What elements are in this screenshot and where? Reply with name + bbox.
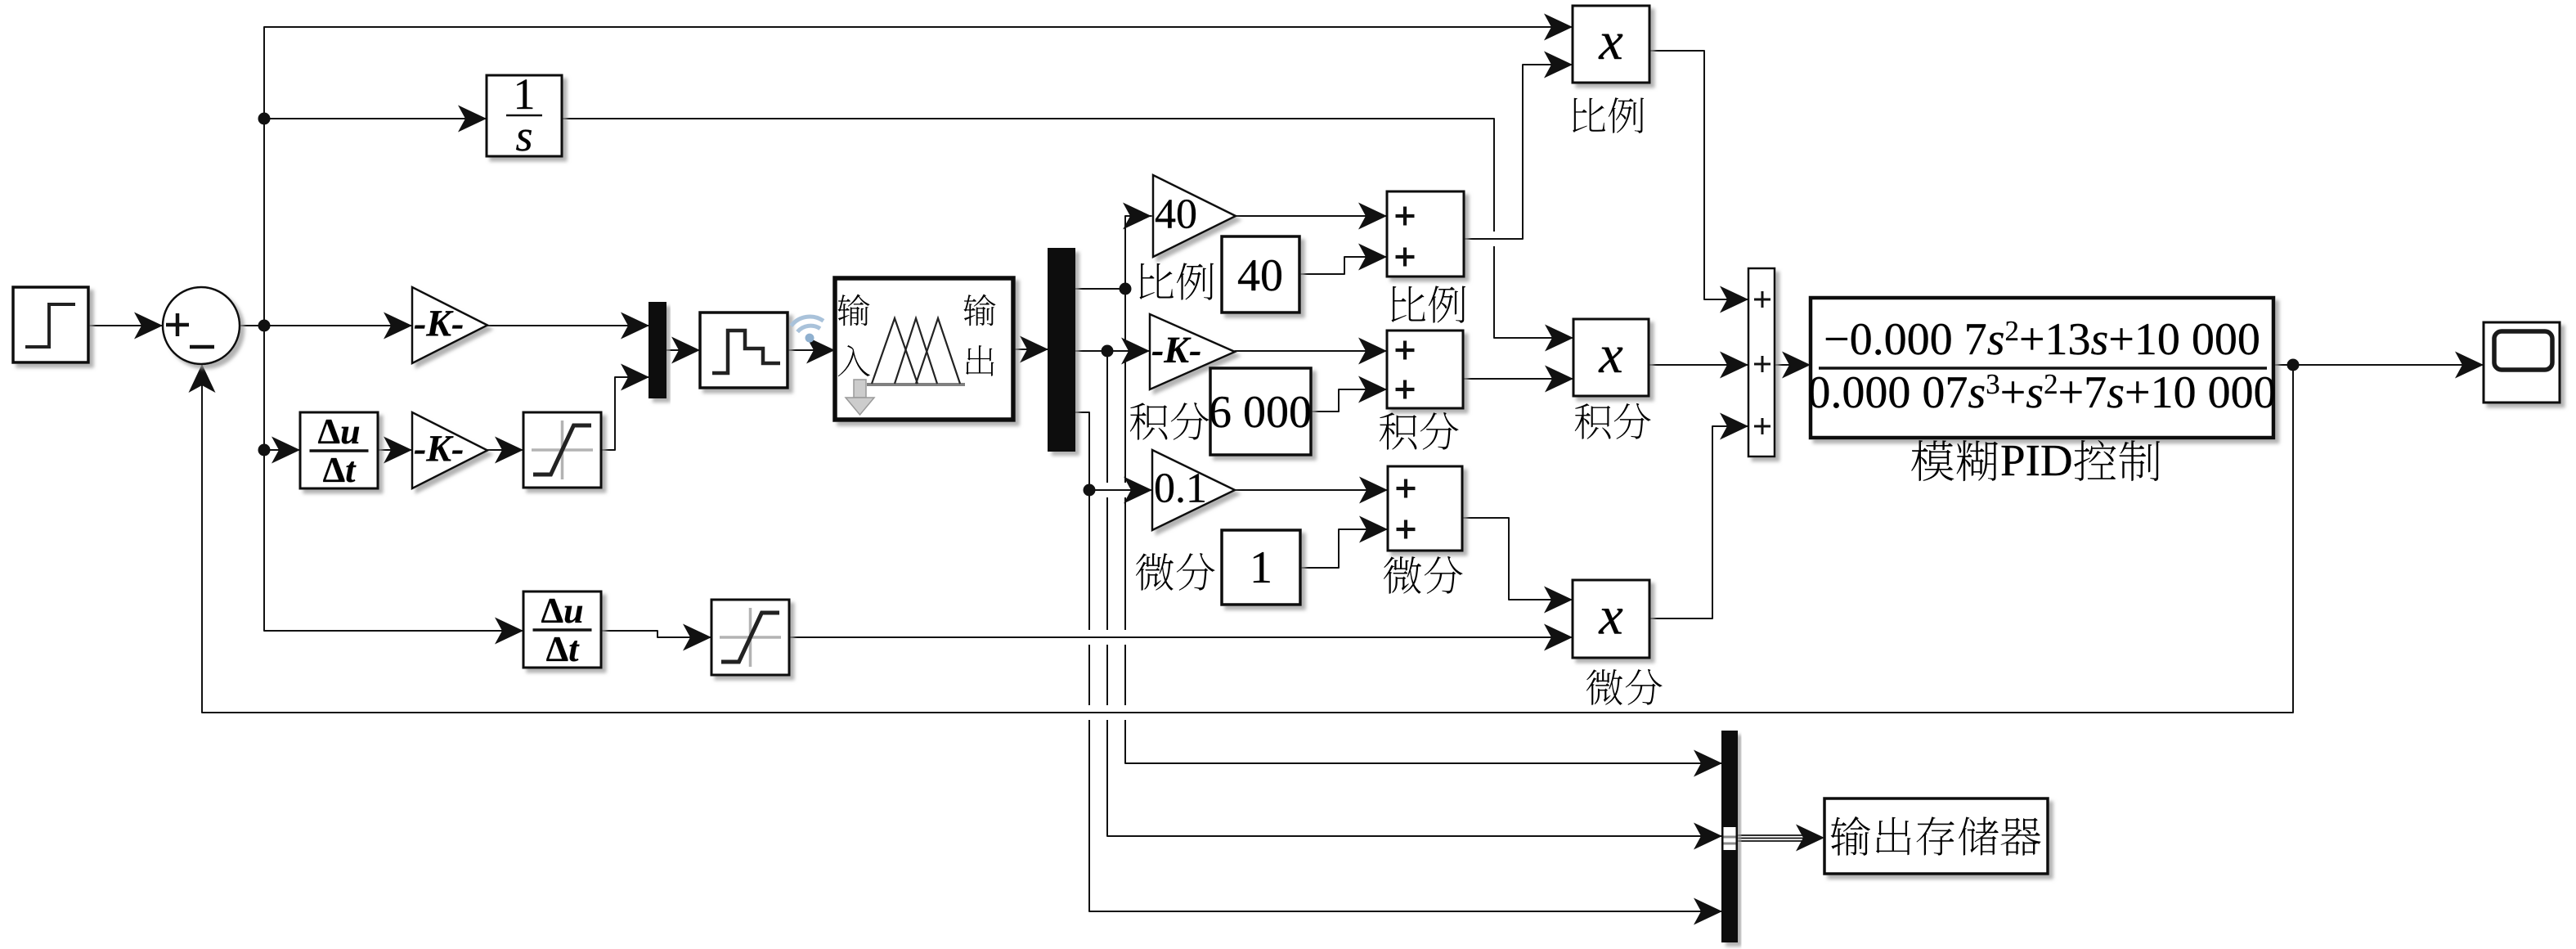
wire: D product to main sum [1649,618,1713,619]
wire: du/dt1 to gain K2 [378,449,413,451]
label: gain K3 积分 [1130,403,1209,440]
fuzzy logic controller block [835,278,1013,420]
label: product P 比例 [1573,97,1644,133]
wire: demux out3 [1075,412,1090,413]
wire: constant 6000 to I sum [1311,411,1340,412]
wire: feedback drop from plant output [2292,365,2294,713]
saturation block 2 [711,600,789,675]
wire: mux1 to quantizer [666,349,701,351]
wire: demux out3 drop to output mux [1088,412,1090,912]
gain -K- (error scaling) [412,287,487,363]
wire: demux out2 to output mux in2 [1107,835,1723,837]
wire: P product to main sum [1649,50,1705,52]
wire: gain K2 to saturation1 [487,449,524,451]
label: gain 40 比例 [1139,263,1214,299]
wire: gain 0.1 to D sum [1235,489,1389,491]
label: sum I 积分 [1380,412,1459,450]
label: sum P 比例 [1391,286,1465,322]
wire: saturation2 to D product [788,636,1573,638]
wire: constant 40 riser [1344,257,1345,275]
quantizer block [700,313,788,388]
wire: P sum to P product [1464,238,1524,240]
mux (2-to-1) [649,303,666,398]
wire: D product output riser [1712,426,1713,619]
wire: output mux vector line to workspace [1737,834,1806,836]
wire: D sum to D product [1462,517,1510,519]
node: branch dots [258,113,271,125]
wire: branch to du/dt2 [264,630,524,632]
wire crossing halos [1123,344,1129,358]
wire: constant 1 to D sum [1300,567,1340,569]
wire: demux out1 [1075,288,1126,290]
du/dt block 1 [300,412,378,488]
label: plant 模糊PID控制 [1911,440,2160,481]
saturation block 1 [523,412,601,488]
wire: gain K3 to I sum [1235,350,1388,352]
wireless logging badge [790,315,825,344]
wire: demux out2 drop to output mux [1106,351,1108,837]
wire: Kp sum output riser [1522,65,1524,240]
wire: quantizer to fuzzy controller [788,349,836,351]
wire: fuzzy controller to demux [1013,349,1049,350]
sum block D (微分) [1388,466,1462,551]
gain -K- (Ki correction) [1150,314,1235,389]
wire: du/dt2 to saturation2 [601,630,658,632]
gain 0.1 (Kd correction) [1152,450,1235,530]
plant transfer function block [1810,298,2275,438]
wire: demux out1 to output mux in1 [1125,762,1723,764]
step source block [13,287,88,362]
sum block I (积分) [1387,331,1463,408]
wire: gain 40 to P sum [1236,215,1388,217]
gain 40 (Kp correction) [1153,175,1236,257]
main summing block (3 inputs) [1748,268,1775,457]
du/dt block 2 [523,591,601,668]
wire: Kd sum output drop [1508,518,1510,600]
label: product I 积分 [1575,403,1651,439]
wire: demux out3 to output mux in3 [1089,911,1723,912]
sum junction (+/-) [163,287,240,364]
label: sum D 微分 [1384,556,1463,594]
constant block 40 [1222,236,1299,313]
arrowheads [134,313,163,340]
wire: saturation1 to mux1 [601,449,616,451]
wire: plant output to scope [2273,364,2484,366]
wire: step to sum [88,325,164,326]
wire: main vertical bus from sum output [263,27,265,632]
sum block P (比例) [1387,191,1464,277]
product block P (x) [1573,6,1649,83]
output mux (3-to-1) [1722,731,1737,942]
wire: demux out2 to gain K3 [1075,350,1151,352]
wire: constant 1 riser [1338,529,1340,569]
wire: P product output drop [1703,51,1705,300]
wire: demux out1 drop to output mux [1124,216,1126,764]
wire: main sum to plant [1775,364,1811,366]
integrator block 1/s [487,75,562,156]
wire: du/dt2 output jog [657,631,658,638]
wire: sum output to gain K1 [240,325,413,326]
gain -K- (error-rate scaling) [412,412,487,488]
constant block 1 [1222,530,1300,605]
wire: I product to main sum [1649,364,1749,366]
constant block 6000 [1210,368,1311,455]
wire: feedback riser into sum minus input [201,364,203,713]
wire: feedback bottom run [202,712,2294,713]
feedback arrowhead into sum [189,364,216,393]
wire: constant 40 to P sum [1299,273,1345,275]
wire: 1/s output [562,118,1495,119]
wire: saturation1 output riser [614,377,616,451]
wire: I sum to I product [1463,378,1574,380]
product block I (x) [1573,319,1649,396]
wire: gain K1 to mux1 [487,325,650,326]
demux (1-to-3) [1048,249,1075,451]
label: gain 0.1 微分 [1136,553,1215,591]
scope block [2484,322,2560,403]
wire: branch to integrator 1/s [264,118,487,119]
label: product D 微分 [1586,669,1663,705]
product block D (x) [1573,580,1649,658]
wire: error bypass to P product [264,26,1573,28]
wire: 1/s output vertical drop to integral product [1493,119,1495,339]
to-workspace block 输出存储器 [1824,798,2048,874]
wire: constant 6000 riser [1338,389,1340,412]
wire: branch to du/dt1 [264,449,301,451]
